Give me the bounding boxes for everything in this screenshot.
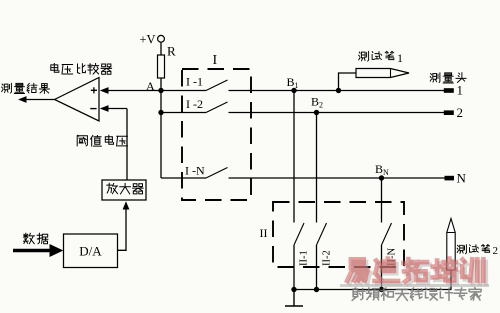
wire row2 left contact [161,112,206,114]
watermark underline shadow [340,284,489,287]
junction bottom II-2 [314,287,319,292]
svg-text:I: I [213,53,218,68]
wire BN dropline [381,178,383,223]
wire plus input to node A [108,90,161,92]
test pen 1 body divider [390,69,392,78]
svg-text:B1: B1 [287,75,299,90]
wire switch II-N lower [381,245,383,290]
label 测量结果 [2,83,50,93]
wire B2 dropline [316,113,318,223]
svg-text:1: 1 [457,83,464,98]
terminal head 2 [444,110,454,115]
node B1 junction [291,88,296,93]
test pen 2 body divider [447,232,455,234]
svg-text:II-2: II-2 [322,250,333,266]
svg-text:I -2: I -2 [186,97,203,111]
row2 junction at A column [158,110,163,115]
wire common bottom [294,289,452,291]
op-amp minus input sign [90,108,96,110]
wire row1 left contact [161,90,206,92]
dashed box group II [273,202,404,267]
wire row1 right of switch I-1 [229,90,445,92]
wire switch II-1 lower [293,245,295,290]
D/A converter box [64,234,118,268]
label 测量头 [430,73,466,83]
wire comparator output [26,99,55,101]
svg-text:N: N [457,171,467,186]
arrowhead into plus input [100,87,109,94]
junction bottom II-1 [291,287,296,292]
watermark 易迪拓培训 [347,259,483,282]
wire threshold vertical [126,109,128,181]
arrowhead into amplifier [123,201,130,209]
watermark shadow [350,261,486,284]
wire node A vertical [160,91,162,179]
arrowhead into minus input [100,105,109,112]
node BN junction [379,175,384,180]
svg-text:II-1: II-1 [299,250,310,266]
switch II-1 blade [294,223,304,245]
resistor R [158,55,165,78]
arrowhead measurement result output [18,96,27,103]
label 测试笔2 [457,245,489,254]
junction bottom II-N [379,287,384,292]
amplifier box 放大器 [102,180,146,200]
terminal head 1 [444,88,454,93]
switch I-2 blade [206,102,228,113]
wire D/A to amplifier [118,209,127,250]
wire resistor to node A [160,78,162,91]
wire B1 dropline [293,91,295,223]
data bus arrowhead [50,244,64,257]
svg-text:2: 2 [457,105,464,120]
test pen 1 body [356,69,409,78]
terminal head N [445,176,455,181]
svg-text:I -1: I -1 [186,75,203,89]
svg-text:R: R [167,44,176,59]
wire test pen 1 link [339,73,357,91]
node A junction [158,88,163,93]
switch I-1 blade [206,80,228,91]
label 数据 [24,233,48,243]
dashed box group I [182,69,251,200]
switch I-N blade [206,168,228,179]
svg-text:A: A [146,79,155,93]
svg-text:BN: BN [375,162,389,177]
data bus thick arrow [13,249,51,252]
wire test pen 2 link [450,270,452,290]
svg-text:+V: +V [140,33,156,47]
svg-text:2: 2 [493,245,499,257]
watermark 射频和天线设计专家 [352,288,481,301]
wire +V to resistor [160,42,162,55]
node B2 junction [314,110,319,115]
op-amp plus input sign [91,87,97,93]
svg-text:1: 1 [397,51,403,65]
wire row2 right of switch I-2 [229,112,445,114]
+V terminal circle [158,35,165,42]
test pen 2 body [447,219,455,271]
svg-text:I -N: I -N [185,164,205,178]
ground [285,290,303,307]
op-amp U1 comparator triangle [55,78,100,122]
label 放大器 [107,183,143,194]
label 阈值电压 [77,135,127,146]
switch II-2 blade [317,223,327,245]
switch II-N blade [382,223,392,245]
svg-text:II: II [260,226,268,240]
wire switch II-2 lower [316,245,318,290]
wire rowN left contact [161,177,206,179]
wire minus input horizontal [108,108,127,110]
label 测试笔1 [359,51,394,61]
label 电压比较器 [51,64,112,75]
junction test pen 1 tap [336,88,341,93]
svg-text:D/A: D/A [79,244,102,259]
svg-text:B2: B2 [311,95,323,110]
wire rowN right of switch I-N [229,177,446,179]
